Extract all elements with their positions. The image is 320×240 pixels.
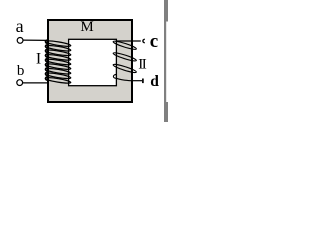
primary winding I (9 turns on left leg) — [45, 40, 71, 48]
terminal a (circle) — [17, 38, 23, 44]
svg-text:I: I — [36, 51, 41, 68]
secondary last turn and exit to d — [113, 75, 133, 81]
core window (inner white opening) — [69, 39, 117, 85]
svg-text:b: b — [17, 63, 25, 79]
svg-text:M: M — [80, 19, 93, 35]
terminal d tick — [142, 79, 144, 84]
wire d from secondary — [131, 80, 142, 82]
terminal c hook (open contact) — [143, 39, 145, 43]
svg-text:c: c — [150, 31, 158, 52]
svg-text:a: a — [16, 16, 24, 36]
wire b to primary winding — [23, 82, 49, 84]
scrollbar track middle (right edge) — [164, 22, 166, 103]
svg-text:d: d — [150, 73, 159, 90]
scrollbar segment top (right edge) — [164, 0, 168, 22]
secondary winding II (turns on right leg) — [113, 40, 137, 51]
primary winding left bumps (bold tips) — [46, 40, 48, 80]
transformer core M (outer gray rectangle) — [48, 20, 132, 102]
scrollbar segment bottom (right edge) — [164, 102, 168, 122]
wire a to primary winding — [23, 39, 48, 41]
wire c from secondary — [116, 40, 141, 42]
terminal b (circle) — [17, 80, 23, 86]
svg-text:II: II — [138, 56, 147, 72]
